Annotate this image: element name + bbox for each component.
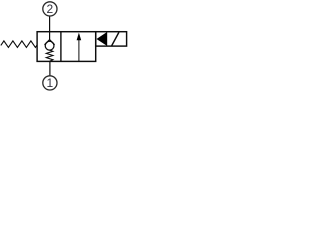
solenoid triangle (proportional) [97, 32, 108, 46]
svg-text:1: 1 [47, 76, 54, 90]
svg-text:2: 2 [47, 2, 54, 16]
solenoid box [96, 32, 127, 46]
flow arrow stem [78, 40, 80, 62]
node 1 (port circle) [43, 76, 57, 90]
wire: valve to port 1 [49, 61, 51, 75]
flow arrow head [77, 33, 82, 41]
check valve ball [45, 41, 54, 50]
spring (left, horizontal) [1, 41, 37, 48]
spring (vertical, under ball) [46, 50, 53, 61]
node 2 (port circle) [43, 2, 57, 16]
box divider [60, 32, 62, 62]
check valve seat [45, 40, 55, 45]
valve envelope (two position boxes) [37, 32, 96, 62]
wire: port 2 to check seat [49, 16, 51, 40]
solenoid slash [112, 32, 119, 45]
